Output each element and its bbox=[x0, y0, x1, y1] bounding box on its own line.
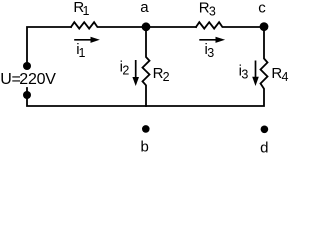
svg-text:a: a bbox=[140, 0, 149, 16]
svg-text:U=: U= bbox=[0, 71, 20, 88]
svg-text:c: c bbox=[258, 0, 266, 17]
svg-text:d: d bbox=[260, 139, 268, 156]
svg-text:b: b bbox=[141, 139, 149, 156]
svg-text:220V: 220V bbox=[19, 71, 56, 88]
